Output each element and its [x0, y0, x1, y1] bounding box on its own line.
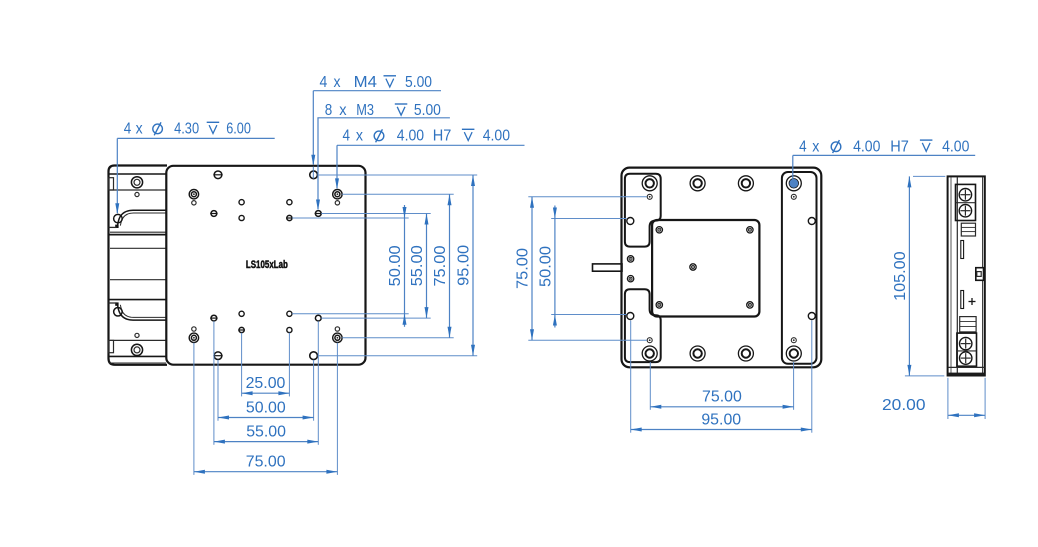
- svg-text:M4: M4: [354, 74, 377, 91]
- svg-text:H7: H7: [433, 128, 452, 145]
- svg-text:50.00: 50.00: [538, 246, 555, 287]
- svg-text:8: 8: [325, 102, 333, 119]
- svg-text:20.00: 20.00: [882, 397, 926, 414]
- svg-text:x: x: [339, 102, 346, 119]
- svg-text:55.00: 55.00: [246, 423, 286, 440]
- svg-text:4.00: 4.00: [483, 128, 510, 145]
- svg-text:4: 4: [799, 138, 807, 155]
- svg-text:75.00: 75.00: [246, 454, 286, 471]
- svg-text:50.00: 50.00: [387, 245, 404, 286]
- svg-text:x: x: [812, 138, 819, 155]
- svg-text:x: x: [334, 74, 341, 91]
- svg-text:H7: H7: [890, 138, 909, 155]
- svg-text:25.00: 25.00: [246, 375, 286, 392]
- svg-text:4.00: 4.00: [853, 138, 880, 155]
- svg-text:75.00: 75.00: [702, 389, 742, 406]
- svg-text:50.00: 50.00: [246, 399, 286, 416]
- svg-text:105.00: 105.00: [892, 251, 909, 301]
- svg-text:4: 4: [320, 74, 328, 91]
- svg-text:4: 4: [343, 128, 351, 145]
- svg-text:95.00: 95.00: [456, 245, 473, 286]
- svg-text:4.00: 4.00: [397, 128, 424, 145]
- svg-text:LS105xLab: LS105xLab: [246, 259, 288, 271]
- svg-text:6.00: 6.00: [226, 121, 251, 138]
- svg-text:4.30: 4.30: [174, 121, 199, 138]
- svg-text:M3: M3: [356, 102, 374, 119]
- svg-text:95.00: 95.00: [701, 411, 741, 428]
- svg-text:55.00: 55.00: [409, 245, 426, 286]
- svg-text:5.00: 5.00: [414, 102, 441, 119]
- svg-text:4.00: 4.00: [942, 138, 969, 155]
- svg-text:5.00: 5.00: [405, 74, 432, 91]
- svg-text:x: x: [356, 128, 363, 145]
- svg-text:75.00: 75.00: [432, 245, 449, 286]
- svg-text:75.00: 75.00: [515, 248, 532, 289]
- svg-text:4: 4: [124, 121, 132, 138]
- svg-text:x: x: [136, 121, 143, 138]
